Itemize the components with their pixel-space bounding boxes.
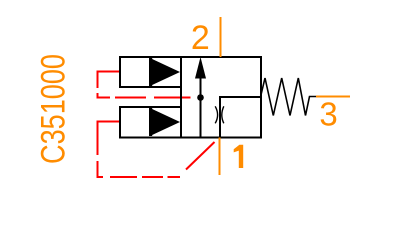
port 1 line (orange) <box>219 138 221 176</box>
port 2 line (orange) <box>220 17 222 57</box>
wire: lower pilot corner into box <box>98 122 121 156</box>
pilot line (red dashed) to upper check valve <box>98 72 191 98</box>
wire: upper pilot vertical dash + corner <box>98 93 111 98</box>
wire: lower pilot dash at bend <box>168 176 181 178</box>
spring (zigzag) <box>261 78 317 116</box>
inner pilot chamber box <box>220 97 261 138</box>
junction node dot <box>197 94 204 101</box>
svg-text:2: 2 <box>191 19 210 57</box>
port 1 label (Arial-style glyph without foot serif) <box>234 145 244 168</box>
svg-text:3: 3 <box>319 96 337 133</box>
svg-text:C351000: C351000 <box>35 54 73 164</box>
valve body main envelope <box>181 57 261 138</box>
wire: upper pilot dash <box>115 97 146 99</box>
pilot line (red dashed) from port 1 to lower check valve <box>98 122 215 178</box>
wire: lower pilot diagonal dash to port 1 <box>186 142 215 170</box>
orifice symbol )( on inner box wall <box>215 106 217 123</box>
wire: lower pilot dash <box>142 176 163 178</box>
lower check valve poppet (filled triangle) <box>150 108 180 136</box>
wire: lower pilot dash <box>110 176 137 178</box>
wire: upper pilot corner into box <box>98 72 121 89</box>
wire: upper pilot dash to junction <box>154 97 191 99</box>
lower check valve box <box>120 107 181 138</box>
port 3 line (orange) <box>316 96 350 98</box>
wire: lower pilot vertical dash + corner <box>98 161 104 177</box>
main poppet arrow head <box>195 57 206 79</box>
main poppet flow arrow stem <box>200 76 202 138</box>
upper check valve box <box>120 57 181 87</box>
upper check valve poppet (filled triangle) <box>150 58 180 86</box>
